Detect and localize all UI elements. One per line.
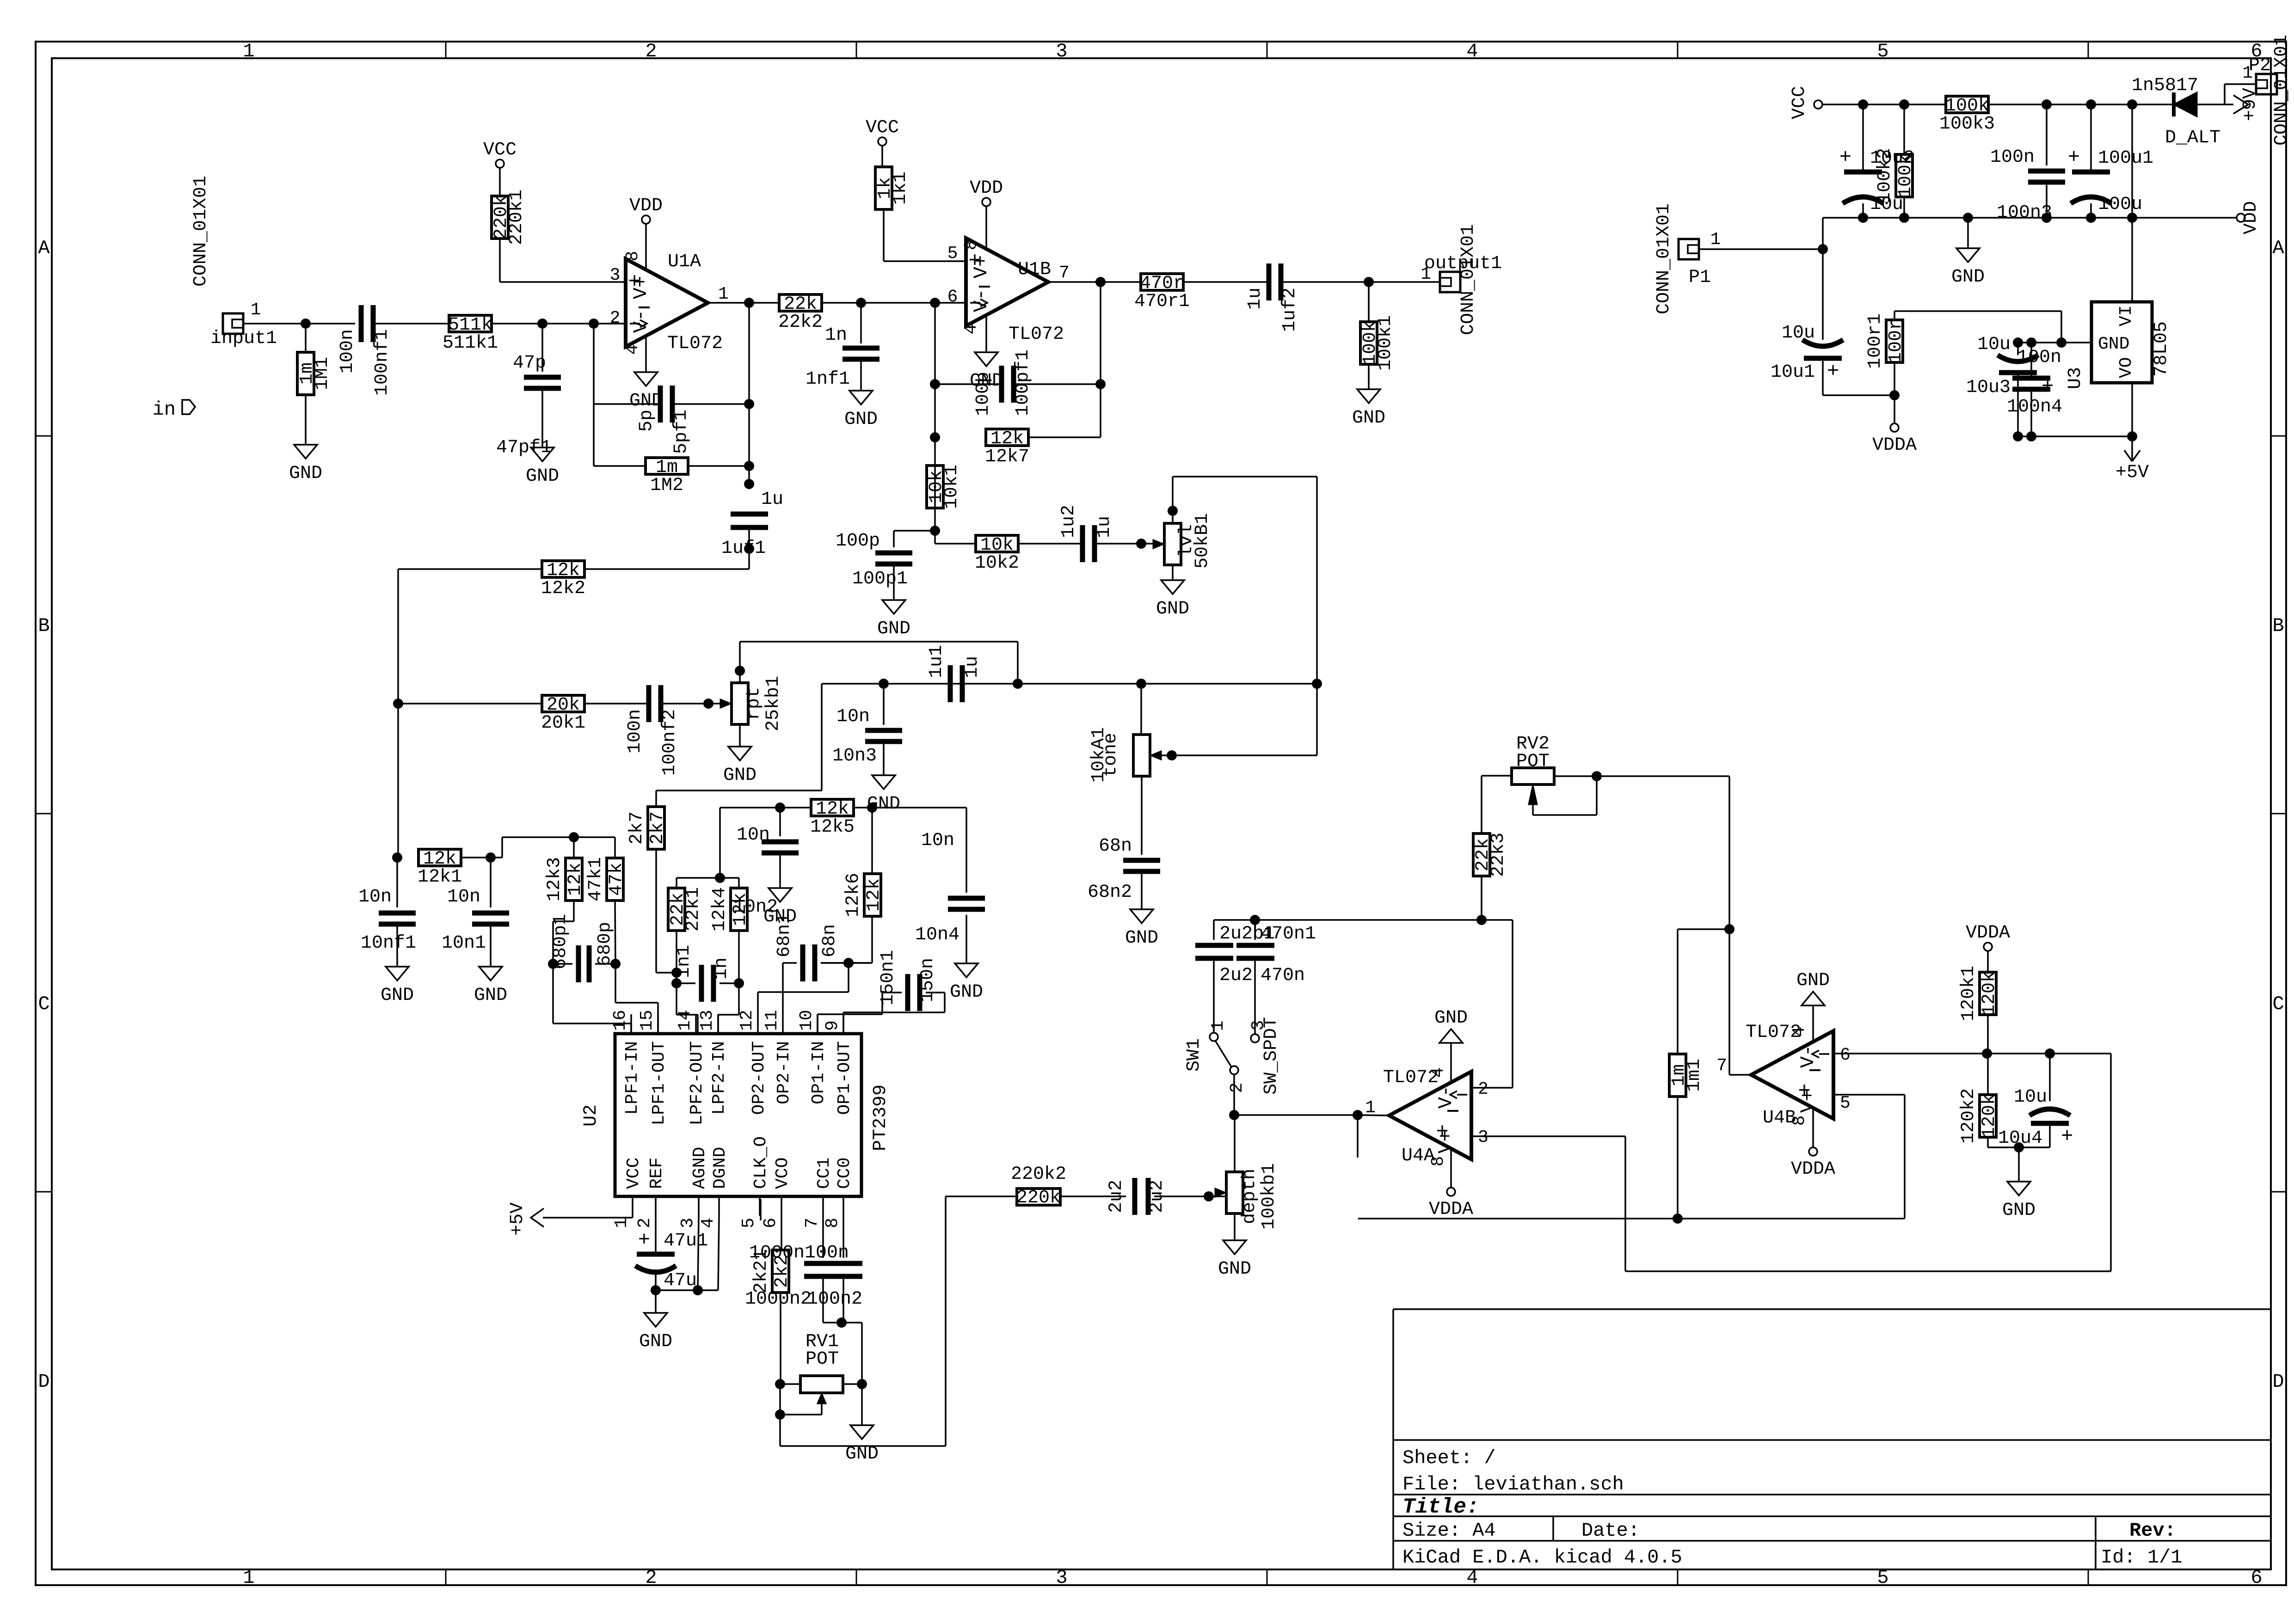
svg-text:680p: 680p xyxy=(595,922,615,966)
svg-text:A: A xyxy=(38,237,50,259)
svg-text:100n: 100n xyxy=(1990,147,2035,168)
svg-text:100kb1: 100kb1 xyxy=(1259,1163,1279,1230)
svg-text:1000n: 1000n xyxy=(749,1243,805,1263)
svg-text:2: 2 xyxy=(1227,1083,1247,1093)
svg-text:1uf1: 1uf1 xyxy=(721,538,766,559)
svg-text:U3: U3 xyxy=(2065,367,2086,389)
svg-text:1n1: 1n1 xyxy=(674,945,695,978)
svg-text:U1B: U1B xyxy=(1018,259,1051,280)
svg-text:7: 7 xyxy=(1716,1056,1727,1076)
svg-text:100k3: 100k3 xyxy=(1939,114,1995,135)
svg-text:OP2-OUT: OP2-OUT xyxy=(749,1041,769,1115)
svg-text:1M1: 1M1 xyxy=(312,357,333,390)
svg-text:OP2-IN: OP2-IN xyxy=(774,1041,794,1104)
svg-text:+: + xyxy=(2061,1125,2073,1148)
svg-text:7: 7 xyxy=(802,1218,822,1228)
svg-text:VDD: VDD xyxy=(2241,201,2262,234)
svg-text:VCC: VCC xyxy=(483,140,517,160)
svg-text:100n: 100n xyxy=(2017,347,2061,368)
svg-text:10k2: 10k2 xyxy=(975,553,1019,574)
svg-text:V+: V+ xyxy=(1797,1090,1819,1113)
svg-text:rpt: rpt xyxy=(744,687,764,720)
svg-text:B: B xyxy=(2272,615,2284,637)
svg-text:3: 3 xyxy=(678,1218,698,1228)
svg-text:470n1: 470n1 xyxy=(1261,924,1316,944)
svg-text:5: 5 xyxy=(947,244,958,264)
svg-text:22k2: 22k2 xyxy=(778,312,823,333)
svg-text:1u: 1u xyxy=(1245,288,1266,310)
svg-text:100k1: 100k1 xyxy=(1375,315,1396,371)
svg-text:VDDA: VDDA xyxy=(1872,435,1917,456)
svg-text:GND: GND xyxy=(526,466,559,487)
svg-text:CONN_01X01: CONN_01X01 xyxy=(191,176,211,287)
svg-text:1u1: 1u1 xyxy=(926,645,947,678)
svg-text:GND: GND xyxy=(289,463,322,484)
svg-text:C: C xyxy=(2272,993,2284,1015)
svg-text:47u1: 47u1 xyxy=(664,1231,708,1251)
svg-text:Size: A4: Size: A4 xyxy=(1402,1520,1496,1542)
svg-text:depth: depth xyxy=(1239,1169,1260,1224)
svg-text:100u: 100u xyxy=(2098,194,2142,215)
svg-text:68n: 68n xyxy=(819,924,840,957)
svg-text:OP1-OUT: OP1-OUT xyxy=(835,1041,855,1115)
svg-text:5: 5 xyxy=(1877,1567,1888,1589)
svg-text:TL072: TL072 xyxy=(1009,324,1064,345)
svg-text:GND: GND xyxy=(2002,1200,2036,1221)
svg-text:4: 4 xyxy=(961,324,981,335)
svg-text:U2: U2 xyxy=(581,1104,602,1127)
svg-text:+: + xyxy=(1827,360,1839,383)
svg-text:12k7: 12k7 xyxy=(985,447,1029,467)
svg-text:10k1: 10k1 xyxy=(941,465,962,509)
svg-text:1nf1: 1nf1 xyxy=(806,369,850,390)
svg-text:100p: 100p xyxy=(836,531,880,552)
svg-text:7: 7 xyxy=(1059,263,1070,283)
svg-text:PT2399: PT2399 xyxy=(870,1085,891,1151)
svg-text:P1: P1 xyxy=(1689,267,1711,288)
svg-text:GND: GND xyxy=(950,982,983,1003)
svg-text:4: 4 xyxy=(623,344,643,355)
svg-text:100n: 100n xyxy=(805,1243,849,1263)
svg-text:10u: 10u xyxy=(1977,334,2011,355)
svg-text:100u1: 100u1 xyxy=(2098,148,2153,169)
svg-text:TL072: TL072 xyxy=(667,333,723,354)
svg-text:12k4: 12k4 xyxy=(709,887,730,932)
svg-text:78L05: 78L05 xyxy=(2151,321,2172,377)
svg-text:AGND: AGND xyxy=(690,1147,710,1189)
svg-text:120k1: 120k1 xyxy=(1958,966,1979,1021)
svg-text:VDD: VDD xyxy=(629,196,663,216)
svg-text:GND: GND xyxy=(474,985,507,1006)
svg-text:2u2: 2u2 xyxy=(1219,965,1253,986)
svg-text:VO: VO xyxy=(2116,357,2136,378)
svg-text:1n: 1n xyxy=(825,325,847,346)
svg-text:100r: 100r xyxy=(1886,319,1907,363)
svg-text:VCC: VCC xyxy=(624,1158,644,1189)
svg-text:12k5: 12k5 xyxy=(810,817,855,838)
svg-text:1: 1 xyxy=(243,1567,254,1589)
svg-text:10u4: 10u4 xyxy=(1998,1128,2042,1149)
svg-text:150n: 150n xyxy=(917,958,938,1002)
svg-text:1u: 1u xyxy=(962,656,983,678)
svg-text:3: 3 xyxy=(1478,1128,1488,1147)
svg-text:2: 2 xyxy=(645,40,657,62)
svg-text:220k1: 220k1 xyxy=(506,190,527,245)
svg-text:GND: GND xyxy=(877,619,910,639)
svg-text:5: 5 xyxy=(1840,1093,1851,1113)
svg-text:3: 3 xyxy=(1056,40,1067,62)
svg-text:100nf2: 100nf2 xyxy=(659,709,680,776)
svg-text:POT: POT xyxy=(806,1349,839,1370)
svg-text:Date:: Date: xyxy=(1581,1520,1640,1542)
svg-text:2: 2 xyxy=(1478,1079,1488,1099)
svg-text:10n: 10n xyxy=(836,706,870,727)
svg-text:8: 8 xyxy=(1428,1156,1448,1167)
svg-text:CONN_01X01: CONN_01X01 xyxy=(1458,224,1479,335)
svg-text:1: 1 xyxy=(718,284,729,304)
svg-text:22k1: 22k1 xyxy=(683,887,704,932)
svg-text:8: 8 xyxy=(623,251,643,262)
svg-text:6: 6 xyxy=(2251,1567,2262,1589)
svg-text:GND: GND xyxy=(1125,928,1158,949)
svg-text:VCO: VCO xyxy=(773,1158,793,1189)
svg-text:10n: 10n xyxy=(447,887,480,907)
svg-text:V-: V- xyxy=(970,289,992,312)
svg-text:2k7: 2k7 xyxy=(647,811,668,845)
svg-text:100k: 100k xyxy=(1895,153,1916,198)
svg-text:GND: GND xyxy=(723,765,756,786)
svg-text:10nf1: 10nf1 xyxy=(361,933,416,954)
svg-text:16: 16 xyxy=(610,1010,630,1031)
svg-text:V+: V+ xyxy=(970,255,992,278)
svg-text:V-: V- xyxy=(630,310,652,333)
svg-text:P2: P2 xyxy=(2249,55,2271,76)
svg-text:GND: GND xyxy=(629,391,663,411)
svg-text:1k1: 1k1 xyxy=(890,172,911,205)
svg-text:10u3: 10u3 xyxy=(1966,377,2011,398)
svg-text:10n3: 10n3 xyxy=(832,746,877,766)
svg-text:120k: 120k xyxy=(1979,971,2000,1016)
svg-text:50kB1: 50kB1 xyxy=(1192,513,1213,569)
svg-text:File: leviathan.sch: File: leviathan.sch xyxy=(1402,1473,1624,1495)
svg-text:1u: 1u xyxy=(761,489,783,510)
svg-text:11: 11 xyxy=(762,1010,782,1031)
svg-text:47u: 47u xyxy=(664,1270,697,1291)
svg-text:GND: GND xyxy=(1352,408,1385,429)
svg-text:68n2: 68n2 xyxy=(1088,882,1132,903)
svg-text:LPF2-IN: LPF2-IN xyxy=(709,1041,729,1115)
svg-text:6: 6 xyxy=(761,1218,781,1228)
svg-text:VI: VI xyxy=(2116,305,2136,326)
svg-text:+9V: +9V xyxy=(2240,88,2261,121)
svg-text:tone: tone xyxy=(1101,733,1121,777)
svg-text:4: 4 xyxy=(1466,40,1478,62)
svg-text:Title:: Title: xyxy=(1402,1495,1479,1519)
svg-text:2u2: 2u2 xyxy=(1106,1180,1127,1213)
svg-text:1uf2: 1uf2 xyxy=(1279,288,1300,332)
svg-text:CONN_01X01: CONN_01X01 xyxy=(1654,203,1674,314)
svg-text:100n2: 100n2 xyxy=(807,1289,862,1310)
svg-text:GND: GND xyxy=(844,409,878,430)
svg-text:5: 5 xyxy=(739,1218,759,1228)
svg-text:100pf1: 100pf1 xyxy=(1013,349,1033,416)
svg-text:1m1: 1m1 xyxy=(1684,1059,1705,1092)
svg-text:470r1: 470r1 xyxy=(1134,291,1190,312)
svg-text:OP1-IN: OP1-IN xyxy=(809,1041,829,1104)
svg-text:22k3: 22k3 xyxy=(1488,833,1509,877)
svg-text:D_ALT: D_ALT xyxy=(2165,128,2220,148)
svg-text:1: 1 xyxy=(612,1218,632,1228)
svg-text:GND: GND xyxy=(1796,970,1830,991)
svg-text:KiCad E.D.A. kicad 4.0.5: KiCad E.D.A. kicad 4.0.5 xyxy=(1402,1546,1682,1569)
svg-text:220k2: 220k2 xyxy=(1011,1164,1066,1185)
svg-text:input1: input1 xyxy=(210,328,277,349)
svg-text:SW_SPDT: SW_SPDT xyxy=(1261,1017,1282,1095)
svg-text:SW1: SW1 xyxy=(1184,1038,1205,1072)
svg-text:CC0: CC0 xyxy=(835,1158,855,1189)
svg-text:12: 12 xyxy=(737,1010,757,1031)
svg-text:4: 4 xyxy=(1428,1067,1448,1078)
svg-text:1: 1 xyxy=(243,40,254,62)
svg-text:150n1: 150n1 xyxy=(878,950,898,1005)
svg-text:GND: GND xyxy=(2098,334,2129,354)
svg-text:2k7: 2k7 xyxy=(627,811,647,845)
svg-text:V+: V+ xyxy=(630,276,652,299)
svg-text:8: 8 xyxy=(961,240,981,251)
svg-text:VDD: VDD xyxy=(970,178,1003,199)
svg-text:47k1: 47k1 xyxy=(585,857,606,901)
svg-text:100n: 100n xyxy=(337,329,358,374)
svg-text:1: 1 xyxy=(1710,230,1721,250)
svg-text:10u1: 10u1 xyxy=(1771,362,1815,383)
svg-text:13: 13 xyxy=(697,1010,717,1031)
svg-text:12k2: 12k2 xyxy=(541,578,585,599)
svg-text:2: 2 xyxy=(645,1567,657,1589)
svg-text:12k3: 12k3 xyxy=(544,857,565,901)
svg-text:120k2: 120k2 xyxy=(1958,1088,1979,1144)
svg-text:12k: 12k xyxy=(565,863,586,896)
svg-text:680p1: 680p1 xyxy=(550,914,571,969)
svg-text:4: 4 xyxy=(1790,1027,1809,1037)
svg-text:100p1: 100p1 xyxy=(852,569,908,589)
svg-text:GND: GND xyxy=(1218,1259,1251,1280)
svg-text:8: 8 xyxy=(823,1218,843,1228)
svg-text:VCC: VCC xyxy=(866,117,899,138)
svg-text:+: + xyxy=(2068,146,2080,169)
svg-text:5p: 5p xyxy=(636,410,657,432)
svg-text:CLK_O: CLK_O xyxy=(751,1136,771,1189)
svg-text:GND: GND xyxy=(639,1331,672,1352)
svg-text:5: 5 xyxy=(1877,40,1888,62)
svg-text:+: + xyxy=(1839,146,1851,169)
svg-text:6: 6 xyxy=(947,287,958,307)
svg-text:REF: REF xyxy=(647,1158,667,1189)
svg-text:+: + xyxy=(638,1229,650,1252)
svg-text:A: A xyxy=(2272,237,2284,259)
svg-text:in: in xyxy=(153,398,176,421)
svg-text:10n: 10n xyxy=(358,887,392,907)
svg-text:4: 4 xyxy=(698,1218,718,1228)
svg-text:VDDA: VDDA xyxy=(1429,1199,1473,1220)
svg-text:1M2: 1M2 xyxy=(650,475,683,496)
svg-text:100p: 100p xyxy=(973,372,994,416)
svg-text:10n: 10n xyxy=(921,830,954,851)
svg-text:3: 3 xyxy=(1056,1567,1067,1589)
svg-text:12k6: 12k6 xyxy=(843,873,864,917)
svg-text:V-: V- xyxy=(1435,1085,1457,1109)
svg-text:9: 9 xyxy=(823,1020,843,1031)
svg-text:V+: V+ xyxy=(1435,1130,1457,1153)
svg-text:14: 14 xyxy=(675,1010,695,1031)
svg-text:CC1: CC1 xyxy=(814,1158,834,1189)
svg-text:GND: GND xyxy=(1951,267,1985,288)
svg-text:4: 4 xyxy=(1466,1567,1478,1589)
svg-text:Rev:: Rev: xyxy=(2129,1520,2176,1542)
svg-text:VDDA: VDDA xyxy=(1966,923,2010,944)
svg-text:CONN_01X01: CONN_01X01 xyxy=(2271,35,2292,146)
svg-text:12k1: 12k1 xyxy=(418,867,462,888)
svg-text:1: 1 xyxy=(1208,1021,1228,1031)
svg-text:511k1: 511k1 xyxy=(443,333,498,354)
svg-text:2: 2 xyxy=(610,308,621,328)
svg-text:D: D xyxy=(38,1371,49,1393)
svg-text:1u: 1u xyxy=(1094,516,1115,538)
svg-text:100k2: 100k2 xyxy=(1875,148,1895,203)
svg-text:Sheet: /: Sheet: / xyxy=(1402,1447,1496,1469)
svg-text:220k: 220k xyxy=(1016,1188,1061,1208)
svg-text:10n1: 10n1 xyxy=(442,933,486,954)
svg-text:68n1: 68n1 xyxy=(774,913,795,957)
svg-text:100r1: 100r1 xyxy=(1865,313,1886,369)
svg-text:100n: 100n xyxy=(625,709,646,754)
svg-text:LPF1-OUT: LPF1-OUT xyxy=(649,1041,669,1125)
svg-text:U1A: U1A xyxy=(668,251,701,272)
svg-text:10u: 10u xyxy=(1782,323,1815,343)
svg-text:GND: GND xyxy=(1434,1008,1468,1029)
svg-text:1: 1 xyxy=(251,300,261,320)
svg-text:2: 2 xyxy=(635,1218,655,1228)
svg-text:VDDA: VDDA xyxy=(1791,1159,1835,1180)
svg-text:15: 15 xyxy=(637,1010,657,1031)
svg-text:Id: 1/1: Id: 1/1 xyxy=(2101,1546,2182,1569)
svg-text:+5V: +5V xyxy=(2116,462,2149,483)
svg-text:6: 6 xyxy=(1840,1045,1851,1065)
svg-text:25kb1: 25kb1 xyxy=(763,676,784,731)
svg-text:10: 10 xyxy=(797,1010,817,1031)
svg-text:1u2: 1u2 xyxy=(1058,505,1079,538)
svg-text:1n5817: 1n5817 xyxy=(2132,75,2198,96)
svg-text:DGND: DGND xyxy=(710,1147,730,1189)
svg-text:1n: 1n xyxy=(711,957,732,980)
svg-text:470n: 470n xyxy=(1261,965,1305,986)
svg-text:10u: 10u xyxy=(2014,1087,2047,1108)
svg-text:47k: 47k xyxy=(606,863,627,896)
svg-text:1: 1 xyxy=(1365,1098,1376,1118)
svg-text:VCC: VCC xyxy=(1789,86,1810,119)
svg-text:GND: GND xyxy=(1156,599,1189,619)
svg-text:1000n2: 1000n2 xyxy=(745,1289,812,1310)
svg-text:8: 8 xyxy=(1790,1115,1809,1126)
svg-text:12k: 12k xyxy=(730,893,751,926)
svg-text:LPF2-OUT: LPF2-OUT xyxy=(687,1041,707,1125)
svg-text:C: C xyxy=(38,993,49,1015)
svg-text:12k: 12k xyxy=(864,878,885,912)
svg-text:GND: GND xyxy=(381,985,414,1006)
svg-text:120k: 120k xyxy=(1979,1094,2000,1138)
svg-text:100nf1: 100nf1 xyxy=(372,329,393,396)
svg-text:100n4: 100n4 xyxy=(2007,397,2062,417)
svg-text:+5V: +5V xyxy=(507,1202,528,1236)
svg-text:D: D xyxy=(2272,1371,2284,1393)
svg-text:20k1: 20k1 xyxy=(541,713,585,734)
svg-text:10n4: 10n4 xyxy=(915,925,959,945)
svg-text:V-: V- xyxy=(1797,1045,1819,1068)
svg-text:LPF1-IN: LPF1-IN xyxy=(622,1041,642,1115)
svg-text:B: B xyxy=(38,615,49,637)
svg-text:47p: 47p xyxy=(513,353,546,374)
svg-text:5pf1: 5pf1 xyxy=(671,410,692,454)
svg-text:68n: 68n xyxy=(1099,836,1132,857)
